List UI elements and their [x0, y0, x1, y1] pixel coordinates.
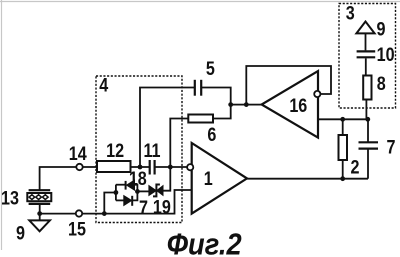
wire: bottom branch to diode 7: [116, 199, 124, 201]
node below 13: [37, 211, 42, 216]
label 13: [1, 187, 19, 209]
capacitor 7: [359, 142, 379, 148]
svg-text:7: 7: [387, 136, 396, 158]
label 4: [99, 74, 108, 96]
diode 19 right half: [157, 186, 163, 196]
wire: capacitor 7 down to output rail: [367, 149, 369, 179]
wire: node C to node D: [231, 104, 247, 106]
wire: op-amp 16 lower input to node E: [318, 118, 368, 120]
label 3: [346, 2, 355, 24]
svg-text:14: 14: [69, 143, 87, 165]
piezo sensor 13: bottom plate: [29, 203, 51, 205]
node A: [138, 165, 143, 170]
op-amp 1 inverting input circle: [187, 164, 193, 170]
dashed box 3: [339, 4, 396, 109]
diode 19 left half: [149, 186, 156, 196]
diode 7 cathode bar: [131, 196, 133, 206]
antenna triangle 9: [356, 22, 374, 34]
wire: node E2 down to capacitor 7: [367, 119, 369, 142]
wire: resistor 6 to node C: [213, 105, 231, 119]
diode 7: [124, 196, 132, 206]
diode loop left vertical: [115, 185, 117, 201]
wire: lower rail node up to diode pair left node: [104, 193, 116, 214]
op-amp 1: [192, 143, 247, 214]
svg-text:15: 15: [68, 218, 86, 240]
wire: node D to op-amp 16 output apex: [246, 104, 261, 106]
label 10: [377, 44, 395, 66]
svg-text:10: 10: [377, 44, 395, 66]
node right of diode pair: [135, 189, 140, 194]
capacitor 11: [150, 160, 155, 175]
wire: top plate of 13 up and right to resistor 12: [40, 167, 97, 190]
piezo sensor 13: body: [27, 193, 51, 201]
svg-text:9: 9: [377, 18, 386, 40]
wire: op-amp 1 output rail: [247, 178, 368, 180]
label 1: [204, 168, 213, 190]
wire: node B up to resistor 6: [170, 119, 188, 168]
op-amp 16 input circle: [314, 91, 320, 97]
label 14: [69, 143, 87, 165]
svg-text:1: 1: [204, 168, 213, 190]
node on lower rail: [102, 211, 107, 216]
node F: [340, 176, 345, 181]
wire: resistor 2 down to output rail: [342, 160, 344, 179]
node B: [168, 165, 173, 170]
diode 19 zener bar: [153, 185, 160, 197]
label 19: [153, 196, 171, 218]
node C: [228, 102, 233, 107]
label 18: [129, 168, 147, 190]
diode 18 cathode bar: [125, 181, 127, 190]
wire: diode 19 up to inverting input line: [163, 167, 170, 191]
diode 18: [127, 180, 135, 190]
wire: node A up to capacitor 5: [140, 88, 194, 168]
wire: capacitor 11 to op-amp 1 inverting input: [156, 166, 188, 168]
terminal 14: [76, 164, 82, 170]
label 7 (right): [387, 136, 396, 158]
wire: top branch to diode 18: [116, 184, 126, 186]
ground 9: [29, 220, 50, 231]
node left of diode pair: [114, 190, 119, 195]
label 5: [206, 58, 215, 80]
wire: capacitor 5 to node C: [202, 88, 231, 105]
svg-text:Фиг.2: Фиг.2: [167, 228, 242, 257]
resistor 6: [188, 115, 213, 123]
wire: bottom plate of 13 down to ground: [39, 205, 41, 221]
label 9 (box 3): [377, 18, 386, 40]
capacitor 10: [357, 51, 376, 57]
piezo sensor 13: top plate: [29, 189, 51, 191]
svg-text:2: 2: [351, 156, 360, 178]
resistor 12: [97, 161, 131, 172]
label 16: [289, 95, 307, 117]
wire: diode 7 to right node: [132, 191, 137, 200]
wire: capacitor 10 to resistor 8: [365, 58, 367, 75]
svg-text:6: 6: [207, 124, 216, 146]
svg-text:5: 5: [206, 58, 215, 80]
wire: resistor 8 down to node E2: [365, 100, 367, 120]
svg-text:19: 19: [153, 196, 171, 218]
resistor 8: [363, 76, 371, 100]
wire: right node to diode pair 19: [137, 190, 149, 192]
caption Фиг.2: [167, 228, 242, 257]
label 6: [207, 124, 216, 146]
label 2: [351, 156, 360, 178]
label 12: [106, 140, 124, 162]
capacitor 5: [195, 80, 201, 96]
op-amp 16: [262, 71, 318, 138]
resistor 2: [339, 135, 348, 160]
svg-text:13: 13: [1, 187, 19, 209]
svg-text:7: 7: [139, 197, 148, 219]
frame left edge: [1, 0, 3, 250]
label 8: [377, 73, 386, 95]
label 11: [143, 140, 160, 162]
dashed box 4: [96, 76, 182, 223]
svg-text:16: 16: [289, 95, 307, 117]
svg-text:11: 11: [143, 140, 160, 162]
frame top edge: [0, 1, 400, 3]
wire: diode 18 to right node: [135, 185, 138, 192]
wire: antenna column in box 3: [365, 33, 367, 50]
svg-text:3: 3: [346, 2, 355, 24]
wire: lower rail from node below 13 to op-amp 1 non-inverting input: [40, 190, 192, 214]
label 7: [139, 197, 148, 219]
svg-text:12: 12: [106, 140, 124, 162]
label 15: [68, 218, 86, 240]
node E2: [365, 117, 370, 122]
terminal 15: [76, 210, 82, 216]
node D: [244, 102, 249, 107]
svg-text:9: 9: [16, 222, 25, 244]
wire: node E1 to resistor 2: [342, 119, 344, 135]
label 9: [16, 222, 25, 244]
wire: feedback loop over op-amp 16: [246, 66, 331, 105]
wire: resistor 12 to capacitor 11: [131, 166, 150, 168]
svg-text:8: 8: [377, 73, 386, 95]
node E1: [340, 117, 345, 122]
svg-text:4: 4: [99, 74, 108, 96]
